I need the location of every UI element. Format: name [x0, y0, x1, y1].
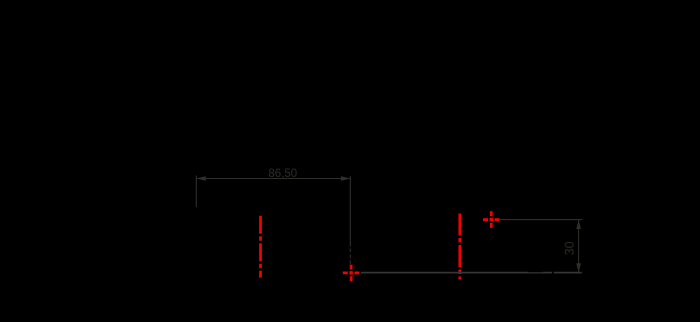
- bottom edge line thin overlap segment: [528, 271, 543, 272]
- dimension 86,50 right extension line (dashed tail above centre mark): [349, 249, 351, 265]
- dimension 86,50 right extension line (solid part): [349, 176, 351, 247]
- dimension 86,50 right arrowhead: [341, 176, 350, 181]
- centre mark cross at (491,220) centre dot: [490, 218, 493, 221]
- top edge line from cross to right: [500, 219, 582, 221]
- hole centre line (red dash-dot) at x=459.8: [458, 214, 461, 280]
- bottom edge line: [361, 272, 582, 274]
- dimension 30 bottom arrowhead: [576, 263, 581, 272]
- centre mark cross at (351,273) vertical arm: [350, 265, 353, 282]
- svg-text:30: 30: [563, 241, 577, 255]
- dimension 30 top arrowhead: [576, 220, 581, 229]
- svg-text:86,50: 86,50: [268, 168, 297, 180]
- dimension 30 vertical dimension line: [578, 220, 580, 273]
- centre mark cross at (351,273) centre dot: [349, 271, 352, 274]
- dimension 86,50 horizontal dimension line: [196, 178, 350, 180]
- centre mark cross at (351,273) horizontal arm: [343, 272, 360, 275]
- centre mark cross at (491,220) vertical arm: [490, 211, 493, 228]
- centre mark cross at (491,220) horizontal arm: [483, 218, 500, 221]
- hole centre line (red dash-dot) at x=260.5: [259, 216, 262, 278]
- bottom edge line small gap: [552, 271, 554, 274]
- dimension 86,50 left extension line: [195, 176, 197, 208]
- dimension 86,50 left arrowhead: [196, 176, 205, 181]
